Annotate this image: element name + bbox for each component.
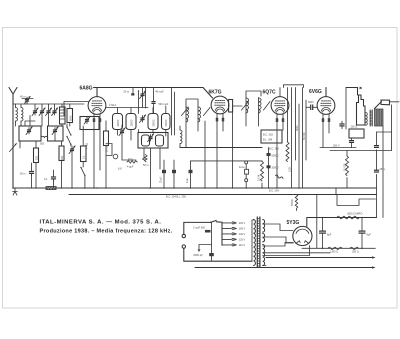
svg-text:0,5 M: 0,5 M: [257, 175, 260, 181]
svg-text:Fono: Fono: [239, 166, 245, 169]
svg-text:Produzione 1938. – Media frequ: Produzione 1938. – Media frequenza: 128 …: [40, 229, 173, 235]
svg-text:4 μμF: 4 μμF: [127, 166, 134, 169]
svg-text:25 m: 25 m: [380, 168, 386, 171]
svg-text:6K7G: 6K7G: [209, 90, 222, 96]
svg-text:8μF: 8μF: [367, 234, 372, 237]
svg-text:250: 250: [35, 155, 38, 160]
svg-text:1T11A: 1T11A: [109, 104, 117, 107]
svg-text:40 mμF: 40 mμF: [155, 91, 164, 94]
svg-text:140 V: 140 V: [239, 233, 246, 236]
svg-text:B.L. 364: B.L. 364: [263, 139, 273, 142]
svg-text:20000: 20000: [165, 119, 168, 127]
svg-text:ITAL-MINERVA S. A. — Mod. 375: ITAL-MINERVA S. A. — Mod. 375 S. A.: [40, 219, 162, 225]
svg-text:0,1: 0,1: [44, 178, 48, 181]
svg-text:350 V: 350 V: [333, 145, 340, 148]
svg-text:50 m: 50 m: [20, 173, 26, 176]
svg-text:500 mμF: 500 mμF: [159, 103, 169, 106]
svg-text:B.C. 363: B.C. 363: [263, 134, 273, 137]
svg-text:6Q7C: 6Q7C: [263, 90, 276, 96]
svg-text:5000: 5000: [308, 101, 314, 104]
svg-text:6,8: 6,8: [118, 168, 122, 171]
svg-text:50000: 50000: [291, 198, 294, 206]
svg-text:30000: 30000: [152, 119, 155, 127]
svg-text:B.C. 354: B.C. 354: [269, 190, 279, 193]
svg-text:6A8G: 6A8G: [80, 86, 93, 92]
svg-text:160 V: 160 V: [239, 228, 246, 231]
svg-text:250: 250: [61, 155, 64, 160]
svg-text:2 mμF 600: 2 mμF 600: [193, 227, 206, 230]
svg-text:220 V: 220 V: [239, 222, 246, 225]
svg-text:50 m: 50 m: [143, 164, 149, 167]
svg-text:5000: 5000: [70, 115, 73, 121]
svg-text:3000 CAMPO: 3000 CAMPO: [347, 213, 362, 216]
svg-text:6V6G: 6V6G: [309, 89, 322, 95]
svg-text:350 Ω: 350 Ω: [352, 251, 359, 254]
svg-text:40 m: 40 m: [20, 96, 26, 99]
svg-text:200 Ω: 200 Ω: [351, 126, 358, 129]
svg-text:0,25: 0,25: [289, 167, 292, 172]
svg-text:8μF: 8μF: [327, 234, 332, 237]
svg-text:500: 500: [40, 143, 45, 146]
svg-text:10000: 10000: [130, 119, 133, 127]
svg-text:8 μF: 8 μF: [186, 177, 189, 183]
svg-text:0,1: 0,1: [83, 155, 86, 159]
svg-text:50000: 50000: [272, 154, 280, 157]
svg-text:50 000: 50 000: [303, 132, 306, 140]
svg-text:3000: 3000: [296, 125, 299, 131]
svg-text:1300 Ω: 1300 Ω: [330, 251, 338, 254]
svg-text:110 V: 110 V: [239, 244, 246, 247]
svg-text:40000: 40000: [117, 119, 120, 127]
svg-text:25 μF: 25 μF: [160, 176, 163, 183]
svg-text:50 m: 50 m: [124, 91, 130, 94]
svg-text:B.C. 363: B.C. 363: [269, 148, 279, 151]
svg-text:5Y3G: 5Y3G: [287, 220, 300, 226]
svg-text:30000: 30000: [272, 167, 280, 170]
svg-text:10 000: 10 000: [344, 163, 347, 171]
svg-text:4 MΩ: 4 MΩ: [86, 143, 89, 149]
svg-text:8000 μF: 8000 μF: [194, 254, 204, 257]
svg-text:B.C. 254 B.L. 255: B.C. 254 B.L. 255: [166, 196, 186, 199]
svg-text:125 V: 125 V: [239, 239, 246, 242]
